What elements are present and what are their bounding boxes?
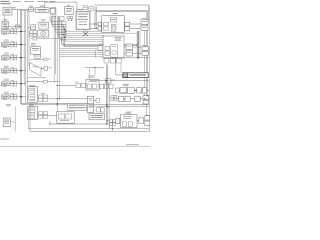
antenna switch pair far right (141, 18, 148, 31)
pair boxes V1 (96, 108, 104, 112)
long wire under N1 (90, 80, 150, 82)
small box on U8 top (89, 7, 93, 11)
bottom bus line 1 (50, 121, 109, 129)
preamp box A2 (81, 83, 85, 87)
ADC row 2 output box (139, 118, 144, 123)
channel row 3 junction dots (20, 57, 21, 58)
ADC row 1 label (121, 91, 127, 94)
buffer pair U13 (142, 45, 148, 55)
ADC row 2 wires (107, 115, 147, 121)
channel row 5 amplifier block (1, 82, 9, 86)
LNA pair left of U9 (98, 22, 101, 25)
channel row 6 caption (3, 98, 7, 101)
DAC block 1 label (30, 84, 36, 87)
TX1 wire right (48, 98, 90, 105)
modulator box U18 (31, 47, 41, 55)
channel row 5 wire to bus (9, 83, 11, 85)
wire across (30, 38, 62, 40)
footer rule line (0, 145, 150, 148)
demodulator box row 2 (121, 113, 137, 128)
secondary vertical wires (23, 11, 25, 86)
channel row 5 filter quad (11, 81, 17, 86)
ADC row 1 chain boxes (119, 96, 141, 101)
footer right text (126, 143, 139, 146)
ladder vertical bundle (62, 22, 66, 47)
bottom bus line 2 (28, 120, 149, 129)
small box K2 on U8 top (83, 6, 87, 10)
channel row 1 filter quad (11, 29, 17, 34)
header figure label (0, 3, 11, 4)
preamp box A1 (75, 82, 81, 88)
wire over to baseband box (45, 1, 77, 3)
channel row 6 junction dots (20, 96, 21, 97)
channel row 3 amplifier block (1, 56, 9, 60)
top small control box U4 (29, 6, 34, 12)
selector output box (41, 67, 51, 70)
header patent title text (0, 1, 55, 2)
control timing label (88, 75, 95, 77)
wire osc to pll (8, 25, 15, 27)
wires mid right (104, 44, 150, 58)
wire U4 to U5 (34, 9, 36, 11)
DAC block 1 U20 (28, 87, 38, 103)
top wide memory box U5 (35, 6, 49, 13)
channel row 2 wire to bus (9, 44, 11, 46)
channel row 2 caption (3, 46, 7, 49)
selector parallelogram MUX1 (30, 62, 41, 76)
ADC row 1 quad grid (111, 95, 117, 101)
small annotation above RF box (6, 103, 11, 106)
dark right bus pair (136, 31, 138, 58)
DAC block 2 U21 (28, 107, 38, 120)
label 60 (13, 7, 16, 8)
serial box U28a (87, 96, 93, 104)
top bus pair B (95, 9, 148, 11)
channel row 4 caption (3, 72, 7, 75)
memory cylinder U6 (50, 7, 56, 14)
channel row 1 label (4, 26, 9, 29)
channel row 3 label (4, 52, 9, 55)
clock cascade L-wires (50, 16, 66, 40)
channel row 4 grid label (11, 66, 14, 69)
mid vertical wire pair (94, 7, 96, 29)
wire pll up (16, 9, 18, 25)
wires detector row (119, 90, 149, 91)
channel row 1 amplifier block (1, 30, 9, 34)
channel row 1 junction dots (20, 31, 21, 32)
RF control box U22 (3, 118, 10, 127)
RF receiver big box U9 (102, 13, 124, 32)
U9 inner center box (111, 24, 116, 31)
wire U5 to U6 (49, 9, 50, 11)
small boxes under U6b (60, 16, 73, 20)
channel row 2 filter quad (11, 42, 17, 47)
channel row 4 label (4, 65, 9, 68)
bottom bus line 3 (30, 105, 149, 132)
channel row 1 wire to bus (9, 31, 11, 33)
ADC row 2 label (127, 112, 132, 114)
RX row wires (90, 22, 149, 29)
channel row 5 grid label (11, 79, 14, 82)
detector input box (116, 88, 120, 92)
channel row 1 caption (3, 33, 7, 36)
dsp box U6b (65, 5, 74, 15)
center vertical bus triple (106, 64, 109, 124)
mid double bus (89, 105, 149, 107)
fan-out wires to right blocks (60, 31, 138, 56)
channel row 6 grid label (11, 92, 14, 95)
channel row 6 filter quad (11, 94, 17, 99)
small box under modulator U19 (35, 54, 41, 58)
filter pair right of U9 (125, 22, 130, 26)
mixer box U16 (38, 30, 49, 37)
channel row 5 caption (3, 85, 7, 88)
PLL block U3 (16, 25, 20, 28)
channel row 5 label (4, 78, 9, 81)
two line bus label box X1 (68, 103, 87, 110)
small box row under U10 (104, 59, 121, 63)
small box row U25 (100, 84, 113, 88)
control block U23 (86, 80, 99, 91)
quad filter grid U17 (30, 31, 37, 37)
channel row 6 wire to bus (9, 96, 11, 98)
wire above selector (30, 59, 44, 61)
channel row 4 filter quad (11, 68, 17, 73)
wire down left (14, 107, 16, 132)
channel row 3 caption (3, 59, 7, 62)
clock bus elbow to right (20, 102, 67, 104)
reference oscillator block U2 (2, 19, 8, 28)
baseband interface box U8 (76, 9, 90, 30)
wire from box row (85, 67, 104, 79)
wide box W1 (89, 114, 104, 120)
ladder junction dots (61, 24, 66, 41)
modulator label (31, 42, 35, 45)
TX2 wire right (48, 115, 57, 117)
channel row 3 grid label (11, 53, 14, 56)
upconverter big box U10 (103, 36, 124, 58)
clock distribution circuit U1 (3, 7, 12, 15)
channel row 3 filter quad (11, 55, 17, 60)
lower wire with tap box (26, 80, 60, 83)
channel row 5 junction dots (20, 83, 21, 84)
top bus line A (94, 4, 149, 6)
TX quad grid 2 (38, 112, 47, 118)
channel row 6 amplifier block (1, 95, 9, 99)
channel row 4 junction dots (20, 70, 21, 71)
ADC row 1 wires (117, 95, 148, 99)
wire clock to bus (12, 8, 29, 10)
serial box U28b (87, 105, 93, 113)
bottom bus vertical links (50, 119, 150, 131)
channel row 1 grid label (11, 27, 14, 30)
ladder feed box U7 (52, 13, 56, 16)
channel row 6 label (4, 91, 9, 94)
input wire to preamp chain (57, 85, 76, 87)
detector cluster label (123, 83, 129, 86)
channel row 4 wire to bus (9, 70, 11, 72)
TX quad grid 1 (38, 93, 47, 101)
channel row 3 wire to bus (9, 57, 11, 59)
channel row 2 junction dots (20, 44, 21, 45)
box U27 pair (137, 88, 147, 93)
detector boxes U26 (120, 87, 134, 93)
U9 inner left mixers (104, 22, 109, 26)
ADC row 2 right pair (145, 116, 150, 126)
small box right of U28a (93, 98, 99, 102)
dark bus label box N1 (116, 58, 148, 78)
box U24 (105, 79, 114, 83)
gain box U15 (31, 25, 36, 30)
channel row 4 amplifier block (1, 69, 9, 73)
DAC block 2 label (29, 103, 34, 106)
small box on wire (44, 58, 51, 61)
channel row 2 grid label (11, 40, 14, 43)
interpolation filter box U14 (39, 22, 48, 29)
ADC row 2 quad grid (110, 120, 116, 126)
PA pair right of U10 (126, 44, 132, 56)
deep vertical wires (54, 30, 59, 112)
clock bus vertical pair (19, 9, 21, 103)
ADC row 1 right pair (143, 96, 149, 104)
wire clock down to osc (4, 15, 6, 21)
footer left text (0, 138, 8, 141)
right edge drop wires (148, 5, 150, 20)
wire top link (22, 10, 29, 12)
wire under selector (28, 77, 46, 79)
channel row 2 amplifier block (1, 43, 9, 47)
crossed switch arrows (83, 30, 88, 36)
input box left of U10 (98, 44, 104, 51)
ADC row 2 input box (116, 118, 120, 123)
codec box Y1 (57, 112, 74, 123)
U9 inner top box (110, 18, 117, 22)
channel row 2 label (4, 39, 9, 42)
interpolation filter label (41, 18, 45, 21)
